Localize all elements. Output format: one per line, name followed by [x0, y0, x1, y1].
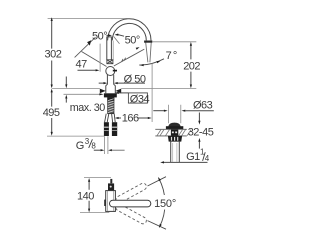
svg-text:Ø63: Ø63	[193, 99, 213, 111]
spout arc outer	[108, 19, 151, 41]
dim G3/8 extensions	[105, 136, 108, 154]
outlet projection extension line	[151, 64, 153, 123]
svg-text:max. 30: max. 30	[70, 102, 105, 114]
drain body through deck	[171, 129, 178, 135]
body	[106, 75, 116, 94]
lever ghost left arrowhead	[87, 40, 91, 45]
dim 495 extension bottom	[47, 135, 104, 137]
drain cap dome	[169, 123, 180, 126]
svg-text:50°: 50°	[92, 30, 107, 42]
dim 47 extension	[99, 44, 101, 72]
lever ghost left lower segment	[82, 52, 107, 67]
dim diameter 50 arrows	[99, 82, 145, 84]
lever ghost left	[75, 37, 96, 57]
svg-text:47: 47	[76, 59, 88, 71]
lever ghost right upper segment	[114, 37, 120, 44]
plan lever knob	[108, 183, 114, 190]
plan swivel extension line upper	[148, 177, 167, 186]
dim 495 arrow down	[51, 132, 53, 136]
drain flange	[166, 126, 183, 129]
threaded shank	[107, 97, 114, 113]
clamp wedge left	[100, 89, 106, 94]
svg-text:202: 202	[183, 60, 200, 72]
hose connector left	[104, 122, 109, 136]
dim max30 arrow up	[65, 95, 67, 99]
dim 140 arrow up	[88, 178, 90, 182]
hose right	[112, 114, 116, 123]
dim 140 arrow down	[88, 209, 90, 213]
dim 302 arrow up	[51, 17, 53, 21]
dim 166 arrow	[118, 117, 148, 119]
dim 202 line	[190, 45, 192, 86]
clamp wedge right	[115, 89, 121, 94]
dim 32-45 lower	[198, 138, 200, 142]
ball pin tick	[113, 70, 117, 72]
svg-text:140: 140	[77, 190, 94, 202]
dim 495 arrow up	[51, 89, 53, 93]
plan view top extension	[84, 177, 111, 179]
dim 202 extension outlet	[153, 41, 197, 43]
drain locknut	[168, 136, 182, 142]
dim max30 arrow down	[65, 77, 67, 86]
dim 302 extension top	[48, 17, 130, 19]
dim 302 line	[51, 20, 53, 87]
dim 50 left leader arrow	[107, 34, 109, 36]
dim 7 deg arc	[139, 59, 164, 65]
svg-text:G1: G1	[186, 151, 200, 163]
dim 140 line	[88, 181, 90, 211]
dim 47 arrow	[78, 69, 96, 71]
svg-text:495: 495	[43, 107, 60, 119]
svg-text:150°: 150°	[154, 198, 176, 210]
plan swivel arc arrowheads	[158, 177, 161, 181]
svg-text:32-45: 32-45	[188, 126, 214, 138]
dim 202 arrow down	[190, 85, 192, 89]
svg-text:Ø 50: Ø 50	[124, 73, 146, 85]
svg-text:302: 302	[45, 48, 62, 60]
dim 150 deg text	[153, 195, 180, 210]
dim G1 1/4 leader	[164, 161, 208, 163]
svg-text:7°: 7°	[166, 50, 179, 62]
plan lever tip	[110, 179, 112, 183]
hose connector right	[112, 122, 117, 136]
ball joint	[106, 67, 115, 76]
dim diameter 34 leader	[118, 92, 128, 94]
deck line top	[52, 87, 197, 89]
dim diameter 63 arrows	[153, 110, 164, 112]
lever ghost right	[114, 49, 145, 66]
svg-text:G: G	[76, 140, 84, 152]
spout outlet	[146, 43, 152, 63]
dim 50 right leader arrow	[118, 35, 124, 37]
base plate	[104, 93, 117, 97]
dim 50 right arc arrowhead	[136, 47, 140, 50]
dim 202 arrow up	[190, 42, 192, 46]
plan spout slot	[110, 200, 151, 207]
lever stick	[106, 37, 111, 60]
plan body	[106, 191, 116, 212]
hose left	[105, 114, 109, 123]
neck	[112, 41, 114, 61]
deck line bottom with arrow	[64, 93, 100, 95]
drain deck strip hatched	[155, 129, 191, 136]
drain tail pipe	[171, 142, 180, 163]
dim G3/8 arrows	[94, 149, 101, 151]
plan swivel ghost lower	[115, 203, 148, 225]
plan swivel extension line lower	[148, 221, 167, 230]
dim 32-45 upper	[198, 113, 200, 122]
dim 495 line	[51, 92, 53, 134]
plan swivel arc	[158, 178, 165, 228]
svg-text:Ø34: Ø34	[130, 93, 150, 105]
plan view bottom extension	[80, 212, 109, 214]
spout outlet aerator block	[144, 41, 152, 43]
plan swivel ghost upper	[115, 182, 148, 204]
plan body nub	[104, 200, 106, 206]
drain extension lines	[168, 105, 180, 123]
dim diameter 34 box	[128, 93, 147, 103]
svg-text:166: 166	[122, 112, 139, 124]
spout arc inner	[112, 23, 146, 40]
dim 302 arrow down	[51, 85, 53, 89]
svg-text:50°: 50°	[125, 35, 140, 47]
